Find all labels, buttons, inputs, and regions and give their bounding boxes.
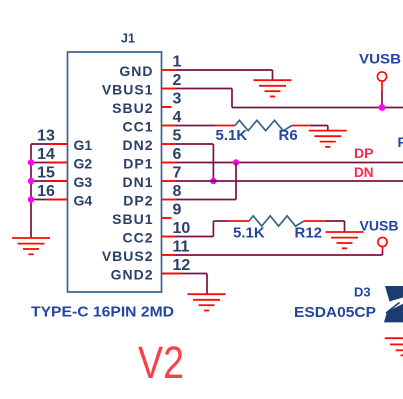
svg-text:TYPE-C 16PIN 2MD: TYPE-C 16PIN 2MD (31, 304, 174, 321)
svg-text:F: F (398, 134, 403, 150)
svg-text:5.1K: 5.1K (233, 225, 265, 242)
svg-text:SBU2: SBU2 (112, 100, 153, 116)
svg-text:VUSB: VUSB (359, 51, 401, 67)
svg-text:G1: G1 (74, 137, 93, 153)
svg-text:G3: G3 (74, 174, 93, 190)
svg-text:D3: D3 (354, 285, 371, 300)
svg-text:GND2: GND2 (111, 267, 154, 283)
svg-text:3: 3 (173, 91, 182, 108)
svg-text:CC2: CC2 (122, 230, 153, 246)
svg-text:5: 5 (173, 128, 182, 145)
svg-text:VUSB: VUSB (360, 218, 399, 234)
svg-text:VBUS2: VBUS2 (102, 248, 154, 264)
svg-text:DN: DN (354, 165, 374, 180)
svg-text:14: 14 (37, 146, 55, 163)
svg-text:DP: DP (354, 146, 374, 161)
svg-text:ESDA05CP: ESDA05CP (294, 304, 376, 321)
svg-text:5.1K: 5.1K (216, 127, 248, 144)
svg-text:VBUS1: VBUS1 (102, 82, 154, 98)
svg-text:J1: J1 (121, 32, 135, 46)
svg-text:V2: V2 (138, 337, 184, 388)
svg-text:7: 7 (173, 165, 182, 182)
svg-text:DP2: DP2 (123, 193, 153, 209)
svg-text:R6: R6 (279, 127, 298, 144)
svg-text:9: 9 (173, 202, 182, 219)
svg-text:11: 11 (173, 239, 190, 256)
svg-text:13: 13 (37, 128, 55, 145)
svg-text:SBU1: SBU1 (112, 211, 153, 227)
svg-text:8: 8 (173, 183, 182, 200)
svg-text:4: 4 (173, 109, 182, 126)
svg-text:12: 12 (173, 257, 191, 274)
svg-text:1: 1 (173, 54, 182, 71)
svg-text:6: 6 (173, 146, 182, 163)
svg-text:DN1: DN1 (122, 174, 153, 190)
svg-text:10: 10 (173, 220, 191, 237)
svg-text:G4: G4 (74, 193, 93, 209)
svg-text:R12: R12 (295, 225, 323, 242)
svg-text:CC1: CC1 (122, 119, 153, 135)
svg-text:16: 16 (37, 183, 55, 200)
svg-text:15: 15 (37, 165, 55, 182)
svg-text:G2: G2 (74, 156, 93, 172)
svg-text:2: 2 (173, 72, 182, 89)
svg-text:DN2: DN2 (122, 137, 153, 153)
svg-text:GND: GND (119, 63, 153, 79)
svg-text:DP1: DP1 (123, 156, 153, 172)
